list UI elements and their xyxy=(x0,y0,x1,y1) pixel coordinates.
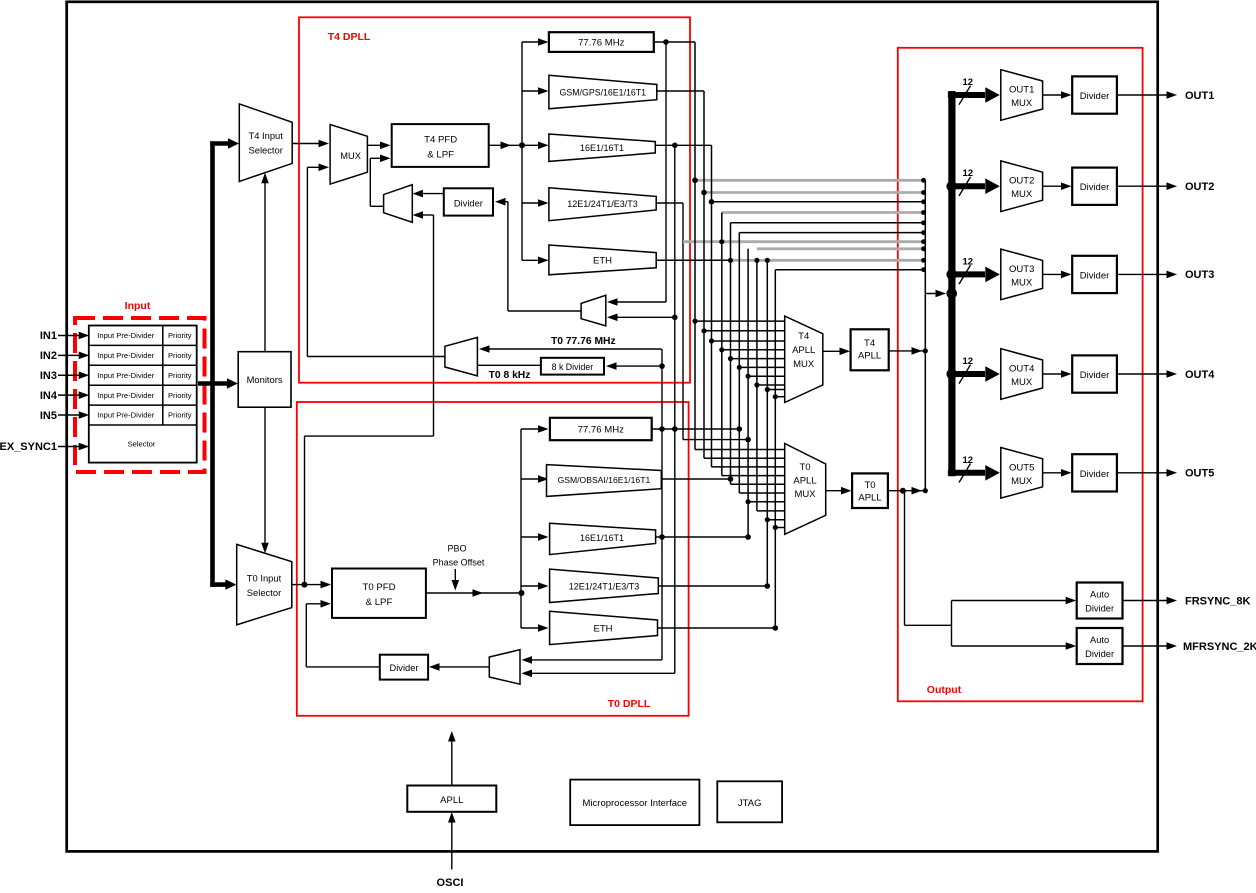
svg-text:Divider: Divider xyxy=(1080,182,1110,193)
svg-text:MUX: MUX xyxy=(340,151,361,161)
svg-text:Input Pre-Divider: Input Pre-Divider xyxy=(97,351,154,360)
svg-text:APLL: APLL xyxy=(792,345,815,356)
svg-text:MUX: MUX xyxy=(1011,476,1033,487)
svg-text:PBO: PBO xyxy=(447,544,466,554)
svg-text:T0: T0 xyxy=(864,480,875,491)
svg-text:ETH: ETH xyxy=(593,256,612,267)
svg-text:T0 Input: T0 Input xyxy=(247,573,282,584)
svg-text:Priority: Priority xyxy=(168,351,192,360)
svg-text:OUT2: OUT2 xyxy=(1009,176,1034,187)
svg-text:MFRSYNC_2K: MFRSYNC_2K xyxy=(1183,641,1256,653)
svg-text:& LPF: & LPF xyxy=(427,150,454,161)
svg-text:Selector: Selector xyxy=(247,587,281,598)
svg-text:Selector: Selector xyxy=(248,144,282,155)
svg-text:Divider: Divider xyxy=(1085,604,1114,614)
svg-text:Priority: Priority xyxy=(168,391,192,400)
svg-text:APLL: APLL xyxy=(858,351,881,362)
svg-text:IN3: IN3 xyxy=(40,370,57,382)
svg-text:Input Pre-Divider: Input Pre-Divider xyxy=(97,371,154,380)
svg-text:12E1/24T1/E3/T3: 12E1/24T1/E3/T3 xyxy=(569,581,640,591)
svg-text:MUX: MUX xyxy=(1011,377,1033,388)
svg-text:OUT1: OUT1 xyxy=(1009,85,1034,96)
svg-text:Input Pre-Divider: Input Pre-Divider xyxy=(97,331,154,340)
svg-text:FRSYNC_8K: FRSYNC_8K xyxy=(1185,595,1250,607)
svg-text:OUT2: OUT2 xyxy=(1185,181,1214,193)
svg-text:IN5: IN5 xyxy=(40,410,57,422)
svg-text:JTAG: JTAG xyxy=(738,798,762,809)
svg-text:T0 8 kHz: T0 8 kHz xyxy=(489,370,531,381)
svg-text:Input: Input xyxy=(125,300,151,312)
svg-text:T0 PFD: T0 PFD xyxy=(362,582,395,593)
svg-text:OUT1: OUT1 xyxy=(1185,90,1214,102)
svg-text:T0 DPLL: T0 DPLL xyxy=(608,698,651,710)
svg-text:Divider: Divider xyxy=(1080,370,1110,381)
svg-text:Selector: Selector xyxy=(128,440,156,449)
svg-text:T0 77.76 MHz: T0 77.76 MHz xyxy=(551,336,616,347)
svg-text:GSM/GPS/16E1/16T1: GSM/GPS/16E1/16T1 xyxy=(560,88,647,98)
svg-text:Divider: Divider xyxy=(390,663,419,673)
svg-text:16E1/16T1: 16E1/16T1 xyxy=(580,533,624,543)
svg-text:16E1/16T1: 16E1/16T1 xyxy=(580,143,624,153)
svg-text:77.76 MHz: 77.76 MHz xyxy=(578,425,625,436)
svg-text:APLL: APLL xyxy=(440,795,463,806)
svg-text:Input Pre-Divider: Input Pre-Divider xyxy=(97,411,154,420)
svg-text:APLL: APLL xyxy=(858,493,881,504)
svg-text:OSCI: OSCI xyxy=(437,877,464,888)
svg-text:Priority: Priority xyxy=(168,331,192,340)
svg-text:12: 12 xyxy=(963,256,974,267)
svg-text:ETH: ETH xyxy=(594,624,613,635)
svg-text:8 k Divider: 8 k Divider xyxy=(552,362,594,372)
svg-text:MUX: MUX xyxy=(1011,277,1033,288)
svg-text:Input Pre-Divider: Input Pre-Divider xyxy=(97,391,154,400)
svg-text:Output: Output xyxy=(927,684,962,696)
svg-text:GSM/OBSAI/16E1/16T1: GSM/OBSAI/16E1/16T1 xyxy=(558,475,651,485)
svg-text:MUX: MUX xyxy=(1011,98,1033,109)
svg-text:Divider: Divider xyxy=(454,199,483,209)
svg-text:Phase Offset: Phase Offset xyxy=(433,558,485,568)
svg-text:IN2: IN2 xyxy=(40,350,57,362)
svg-text:12: 12 xyxy=(963,168,974,179)
svg-text:Priority: Priority xyxy=(168,411,192,420)
svg-text:12: 12 xyxy=(963,77,974,88)
svg-text:T4 PFD: T4 PFD xyxy=(424,134,457,145)
svg-text:T4: T4 xyxy=(798,331,809,342)
svg-text:Divider: Divider xyxy=(1080,270,1110,281)
svg-text:OUT4: OUT4 xyxy=(1185,369,1215,381)
svg-text:12: 12 xyxy=(963,356,974,367)
svg-text:OUT5: OUT5 xyxy=(1185,468,1214,480)
svg-text:Priority: Priority xyxy=(168,371,192,380)
svg-text:OUT4: OUT4 xyxy=(1009,364,1034,375)
svg-text:OUT3: OUT3 xyxy=(1009,264,1034,275)
svg-text:Auto: Auto xyxy=(1090,635,1109,645)
svg-text:77.76 MHz: 77.76 MHz xyxy=(578,38,625,49)
svg-text:IN4: IN4 xyxy=(40,390,58,402)
svg-text:& LPF: & LPF xyxy=(366,597,393,608)
svg-text:T4 DPLL: T4 DPLL xyxy=(328,31,371,43)
svg-text:T0: T0 xyxy=(799,462,810,473)
svg-text:Monitors: Monitors xyxy=(247,374,283,385)
svg-text:OUT5: OUT5 xyxy=(1009,462,1034,473)
svg-text:Auto: Auto xyxy=(1090,590,1109,600)
svg-text:T4 Input: T4 Input xyxy=(248,130,283,141)
svg-text:Divider: Divider xyxy=(1080,469,1110,480)
svg-text:EX_SYNC1: EX_SYNC1 xyxy=(0,441,57,453)
svg-text:OUT3: OUT3 xyxy=(1185,269,1214,281)
svg-text:MUX: MUX xyxy=(1011,189,1033,200)
svg-text:T4: T4 xyxy=(864,338,875,349)
svg-text:Divider: Divider xyxy=(1085,649,1114,659)
svg-text:Microprocessor Interface: Microprocessor Interface xyxy=(583,798,688,809)
svg-text:MUX: MUX xyxy=(793,359,815,370)
svg-text:IN1: IN1 xyxy=(40,330,57,342)
svg-text:MUX: MUX xyxy=(794,489,816,500)
svg-text:Divider: Divider xyxy=(1080,91,1110,102)
svg-text:12: 12 xyxy=(963,455,974,466)
svg-text:12E1/24T1/E3/T3: 12E1/24T1/E3/T3 xyxy=(567,199,638,209)
svg-text:APLL: APLL xyxy=(793,476,816,487)
